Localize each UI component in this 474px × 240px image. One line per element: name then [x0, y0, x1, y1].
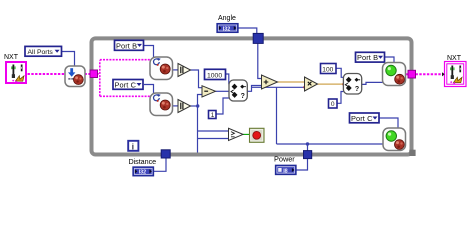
svg-text:Port C: Port C	[351, 114, 373, 123]
svg-text:I32: I32	[223, 26, 231, 32]
svg-text:Port C: Port C	[115, 80, 137, 89]
svg-text:1000: 1000	[207, 72, 222, 79]
svg-text:100: 100	[322, 66, 333, 73]
svg-text:i: i	[132, 142, 134, 151]
svg-text:?: ?	[355, 86, 359, 93]
svg-text:NXT: NXT	[4, 54, 19, 61]
svg-text:Angle: Angle	[218, 15, 236, 22]
svg-text:Port B: Port B	[357, 53, 378, 62]
svg-text:All Ports: All Ports	[28, 49, 54, 56]
svg-text:?: ?	[241, 93, 245, 100]
svg-text:I32: I32	[139, 170, 147, 176]
svg-text:1: 1	[211, 112, 215, 119]
svg-text:Power: Power	[274, 154, 295, 163]
svg-text:0: 0	[331, 101, 335, 108]
svg-text:Port B: Port B	[116, 41, 137, 50]
svg-text:I8: I8	[283, 168, 288, 174]
svg-text:Distance: Distance	[129, 157, 157, 166]
